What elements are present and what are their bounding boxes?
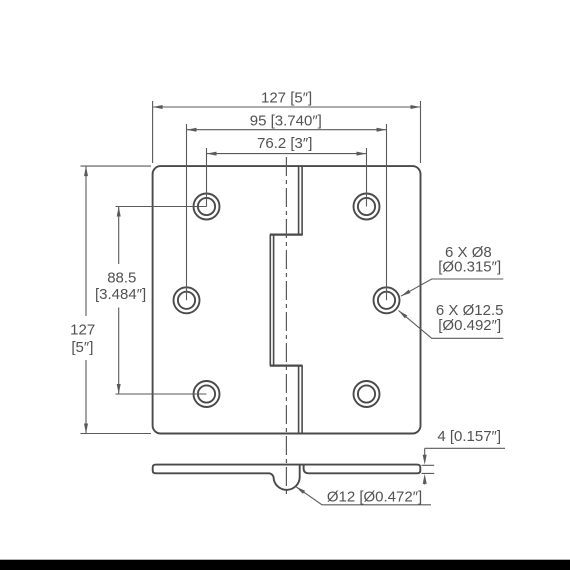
svg-text:[5″]: [5″] xyxy=(71,339,93,356)
leaf seam top pair xyxy=(299,167,303,236)
callout 6xD8: leader xyxy=(401,279,503,296)
dimension 4 thickness: landing line xyxy=(425,447,505,449)
dimension 127 top: extension lines xyxy=(153,101,421,163)
dimension 4 thickness: bottom arrow xyxy=(424,482,426,485)
dimension 76.2: arrows xyxy=(207,152,217,156)
dimension 95: line xyxy=(187,129,387,131)
svg-text:[Ø0.492″]: [Ø0.492″] xyxy=(438,317,501,334)
dimension 127 left: line segments xyxy=(85,166,87,433)
callout 6xD12.5: leader xyxy=(399,311,504,339)
svg-text:Ø12 [Ø0.472″]: Ø12 [Ø0.472″] xyxy=(327,488,422,505)
svg-text:127: 127 xyxy=(70,322,95,339)
svg-text:76.2 [3″]: 76.2 [3″] xyxy=(257,135,312,152)
dimension 95: arrows xyxy=(187,128,197,132)
hole top-right xyxy=(354,194,380,220)
leaf seam bottom pair xyxy=(299,366,303,433)
dimension 88.5: line segments xyxy=(118,207,120,395)
callout 6xD8: arrowhead xyxy=(401,290,411,297)
hole bottom-left xyxy=(194,381,220,407)
svg-text:88.5: 88.5 xyxy=(107,269,136,286)
callout D12 knuckle: leader xyxy=(296,487,431,505)
hole top-left xyxy=(194,194,220,220)
side view right leaf xyxy=(304,465,421,474)
hole bottom-right xyxy=(354,381,380,407)
centerline xyxy=(285,157,287,494)
dimension 127 left: extension lines xyxy=(81,166,152,433)
svg-text:4 [0.157″]: 4 [0.157″] xyxy=(437,428,501,445)
leaf seam bottom jog xyxy=(270,365,303,367)
leaf seam middle pair xyxy=(270,235,273,366)
dimension 76.2: extension lines xyxy=(207,148,367,207)
dimension 4 thickness: extension lines xyxy=(422,465,435,473)
hinge front view outline xyxy=(153,166,421,433)
svg-text:[Ø0.315″]: [Ø0.315″] xyxy=(438,258,501,275)
dimension 76.2: line xyxy=(207,153,367,155)
dimension 88.5: arrows xyxy=(117,207,121,217)
dimension 127 top: line xyxy=(153,106,421,108)
dimension 127 top: arrows xyxy=(153,105,163,109)
hole middle-left xyxy=(174,287,200,313)
dimension 127 left: arrows xyxy=(84,166,88,176)
leaf seam top jog xyxy=(270,234,303,236)
dimension 4 thickness: top arrow xyxy=(424,448,426,456)
bottom black bar xyxy=(0,560,570,570)
hole middle-right xyxy=(374,287,400,313)
svg-text:127 [5″]: 127 [5″] xyxy=(261,89,312,106)
dimension 88.5: extension lines xyxy=(116,207,207,395)
svg-text:[3.484″]: [3.484″] xyxy=(95,286,146,303)
dimension 95: extension lines xyxy=(187,124,387,300)
callout D12 knuckle: arrowhead xyxy=(296,487,305,494)
callout 6xD12.5: arrowhead xyxy=(399,311,408,319)
side view left leaf with knuckle xyxy=(153,465,304,490)
svg-text:95 [3.740″]: 95 [3.740″] xyxy=(250,112,322,129)
